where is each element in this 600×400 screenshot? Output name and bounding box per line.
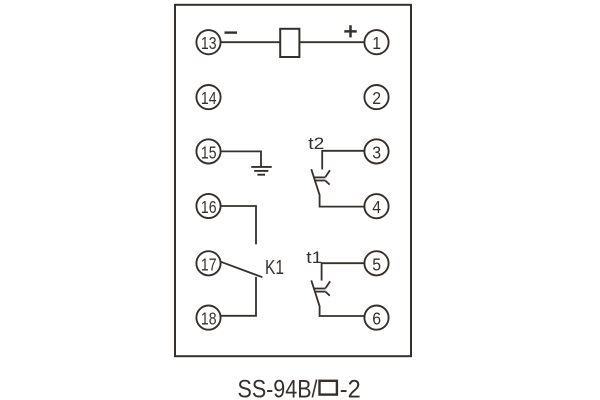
svg-text:14: 14 [201,88,217,108]
terminal 17 [196,251,220,275]
terminal 3 [364,139,388,163]
wire terminal13 to coil [221,41,280,43]
terminal 1 [364,30,388,54]
svg-text:SS-94B/: SS-94B/ [238,376,318,400]
wire coil to terminal1 [299,41,364,43]
svg-text:-2: -2 [340,376,361,400]
caption box glyph [320,381,337,395]
terminal 13 [196,30,220,54]
terminal 15 [196,139,220,163]
wire terminal15 to ground [221,151,261,166]
wire terminal16 to contact K1 [221,206,256,244]
coil U1 (component box) [280,29,299,57]
svg-text:3: 3 [372,142,381,162]
terminal 6 [364,306,388,330]
polarity minus label [225,31,238,33]
svg-text:5: 5 [372,254,381,274]
svg-text:15: 15 [201,142,217,162]
relay case outline [175,5,411,356]
terminal 5 [364,251,388,275]
terminal 14 [196,85,220,109]
svg-text:18: 18 [201,309,217,329]
svg-text:t1: t1 [306,248,322,267]
svg-text:13: 13 [201,33,217,53]
contact t1 (timed contact) [311,280,330,306]
svg-text:16: 16 [201,197,217,217]
wire terminal5 to contact t1 [322,263,365,280]
wire contact t2 to terminal4 [320,195,365,207]
svg-text:t2: t2 [308,134,324,153]
model caption SS-94B/□-2 [238,376,361,400]
wire terminal3 to contact t2 [322,151,364,170]
terminal 18 [196,306,220,330]
contact t2 (timed contact) [311,169,330,195]
contact K1 (movable blade) [221,262,262,277]
svg-text:6: 6 [372,309,381,329]
svg-text:1: 1 [372,33,381,53]
terminal 4 [364,194,388,218]
svg-text:4: 4 [372,197,381,217]
svg-text:17: 17 [201,254,217,274]
terminal 16 [196,194,220,218]
wire contact t1 to terminal6 [320,306,365,316]
svg-text:K1: K1 [265,257,284,279]
ground [251,167,271,175]
terminal 2 [364,85,388,109]
polarity plus label [344,25,356,37]
wire contact K1 to terminal18 [221,277,256,316]
svg-text:2: 2 [372,88,381,108]
